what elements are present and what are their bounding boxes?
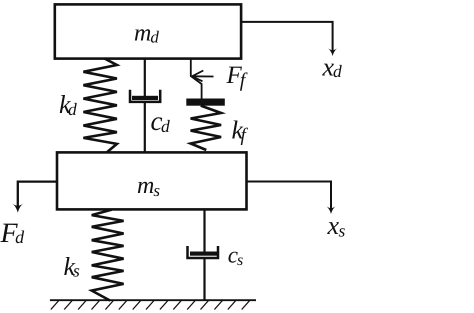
svg-text:xd: xd [322,53,343,82]
svg-text:md: md [134,20,159,46]
label k_f [232,116,249,147]
spring k_f [191,106,222,150]
svg-text:kd: kd [59,90,77,119]
mass m_s [57,152,247,209]
label x_s [327,211,346,241]
damper c_d [130,58,160,152]
label k_s [64,252,81,281]
label c_d [151,106,170,136]
svg-text:cd: cd [151,106,170,136]
svg-text:kf: kf [232,116,249,147]
svg-text:ks: ks [64,252,81,281]
label F_d [0,218,25,249]
ground [50,300,256,309]
spring k_d [83,58,117,152]
spring k_s [92,210,124,301]
friction element rod [191,59,202,99]
displacement arrow x_d [241,22,337,56]
mass m_d [55,4,241,58]
displacement arrow x_s [247,182,336,215]
friction pad bar [186,99,225,106]
svg-text:cs: cs [228,242,243,269]
label x_d [322,53,343,82]
svg-text:Ff: Ff [226,62,248,92]
label c_s [228,242,243,269]
svg-text:xs: xs [327,211,346,241]
label F_f [226,62,248,92]
force arrow F_f [192,71,214,82]
svg-text:Fd: Fd [0,218,25,249]
damper c_s [188,209,219,300]
force arrow F_d [12,182,57,213]
svg-text:ms: ms [137,173,160,200]
label k_d [59,90,77,119]
